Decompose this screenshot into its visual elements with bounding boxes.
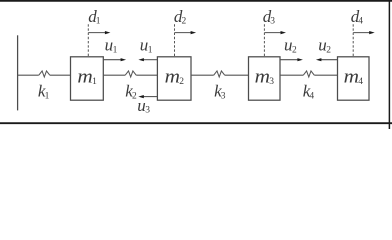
mass m3 (249, 57, 281, 100)
spring k1 (39, 71, 50, 77)
arrow u2 left into mass m4 (316, 58, 338, 61)
svg-text:4: 4 (358, 77, 363, 87)
label d3 (263, 7, 276, 27)
label m4 (344, 68, 364, 88)
svg-text:1: 1 (92, 77, 97, 87)
svg-text:3: 3 (270, 16, 275, 26)
dashed line d2 (174, 24, 176, 56)
label u1 left (105, 36, 118, 56)
arrow u3 left from mass m2 bottom (138, 95, 157, 98)
arrow d4 (353, 31, 375, 34)
frame bottom border (0, 122, 392, 124)
dashed line d1 (87, 24, 89, 56)
label u2 left (284, 36, 297, 56)
svg-text:4: 4 (358, 16, 363, 26)
wire spring k1 to mass m1 (50, 74, 71, 76)
label m1 (77, 68, 97, 88)
dashed line d4 (352, 24, 354, 56)
label m2 (165, 68, 185, 88)
svg-text:1: 1 (96, 16, 101, 26)
spring k2 (125, 71, 136, 77)
arrow d2 (175, 31, 197, 34)
mass m2 (157, 57, 191, 100)
wire spring k2 to mass m2 (136, 74, 157, 76)
frame top border (0, 0, 392, 2)
dashed line d3 (263, 24, 265, 56)
wire spring k4 to mass m4 (314, 74, 337, 76)
spring k4 (303, 71, 314, 77)
label u2 right (318, 36, 331, 56)
arrow d3 (264, 31, 286, 34)
svg-text:m: m (255, 68, 270, 88)
svg-text:2: 2 (182, 16, 187, 26)
wire mass m1 to spring k2 (103, 74, 125, 76)
svg-text:2: 2 (292, 45, 297, 55)
wire mass m3 to spring k4 (280, 74, 303, 76)
mass m1 (71, 57, 104, 100)
svg-text:2: 2 (179, 77, 184, 87)
spring k3 (214, 71, 225, 77)
label k4 (303, 82, 315, 102)
label k1 (38, 82, 50, 102)
svg-text:2: 2 (326, 45, 331, 55)
svg-text:m: m (344, 68, 359, 88)
arrow u1 right from mass m1 (103, 58, 126, 61)
mass m4 (338, 57, 370, 100)
frame right border (388, 0, 390, 129)
label d1 (88, 7, 101, 27)
svg-text:1: 1 (148, 45, 153, 55)
svg-text:m: m (77, 68, 92, 88)
wire spring k3 to mass m3 (225, 74, 249, 76)
label u3 (137, 96, 150, 116)
wall (17, 35, 19, 110)
wire mass m2 to spring k3 (191, 74, 214, 76)
label m3 (255, 68, 275, 88)
label k3 (214, 82, 226, 102)
label d4 (351, 7, 364, 27)
arrow u1 left into mass m2 (138, 58, 157, 61)
svg-text:1: 1 (45, 91, 50, 101)
arrow d1 (88, 31, 110, 34)
svg-text:4: 4 (309, 91, 314, 101)
wire wall to spring k1 (18, 74, 39, 76)
svg-text:1: 1 (113, 45, 118, 55)
svg-text:3: 3 (145, 106, 150, 116)
label u1 right (140, 36, 153, 56)
svg-text:3: 3 (221, 91, 226, 101)
arrow u2 right from mass m3 (280, 58, 303, 61)
svg-text:2: 2 (132, 91, 137, 101)
svg-text:3: 3 (269, 77, 274, 87)
label d2 (174, 7, 187, 27)
label k2 (125, 82, 137, 102)
svg-text:m: m (165, 68, 180, 88)
